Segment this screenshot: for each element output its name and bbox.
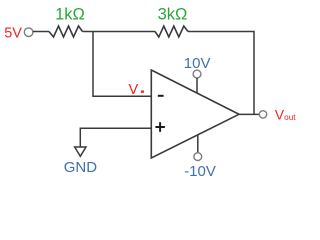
node junction drop wire bbox=[92, 32, 94, 97]
output wire bbox=[239, 113, 259, 115]
wire +10V stem bbox=[196, 78, 198, 93]
feedback wire down bbox=[253, 31, 255, 115]
op-amp minus pin mark bbox=[158, 95, 164, 97]
gnd stem wire bbox=[79, 128, 81, 148]
resistor R2 bbox=[155, 26, 188, 37]
wire R1 to R2 bbox=[83, 31, 156, 33]
wire inverting input bbox=[92, 95, 151, 97]
svg-text:V: V bbox=[129, 82, 139, 98]
svg-text:10V: 10V bbox=[184, 55, 211, 72]
wire R2 to corner bbox=[188, 31, 254, 33]
wire -10V stem bbox=[197, 135, 199, 153]
svg-text:GND: GND bbox=[64, 159, 97, 176]
terminal +10V bbox=[193, 70, 201, 78]
svg-text:1kΩ: 1kΩ bbox=[55, 6, 85, 24]
svg-text:-10V: -10V bbox=[184, 163, 216, 180]
terminal 5V bbox=[24, 28, 33, 37]
resistor R1 bbox=[49, 26, 83, 37]
terminal -10V bbox=[194, 153, 202, 161]
ground bbox=[75, 147, 86, 156]
op-amp U1 bbox=[151, 70, 239, 158]
terminal Vout bbox=[259, 111, 266, 118]
svg-text:Vout: Vout bbox=[275, 107, 296, 123]
svg-text:5V: 5V bbox=[4, 26, 22, 42]
svg-text:3kΩ: 3kΩ bbox=[158, 6, 188, 24]
wire noninverting input bbox=[80, 127, 151, 129]
wire 5V to R1 bbox=[33, 31, 49, 33]
op-amp plus pin mark bbox=[155, 126, 165, 128]
